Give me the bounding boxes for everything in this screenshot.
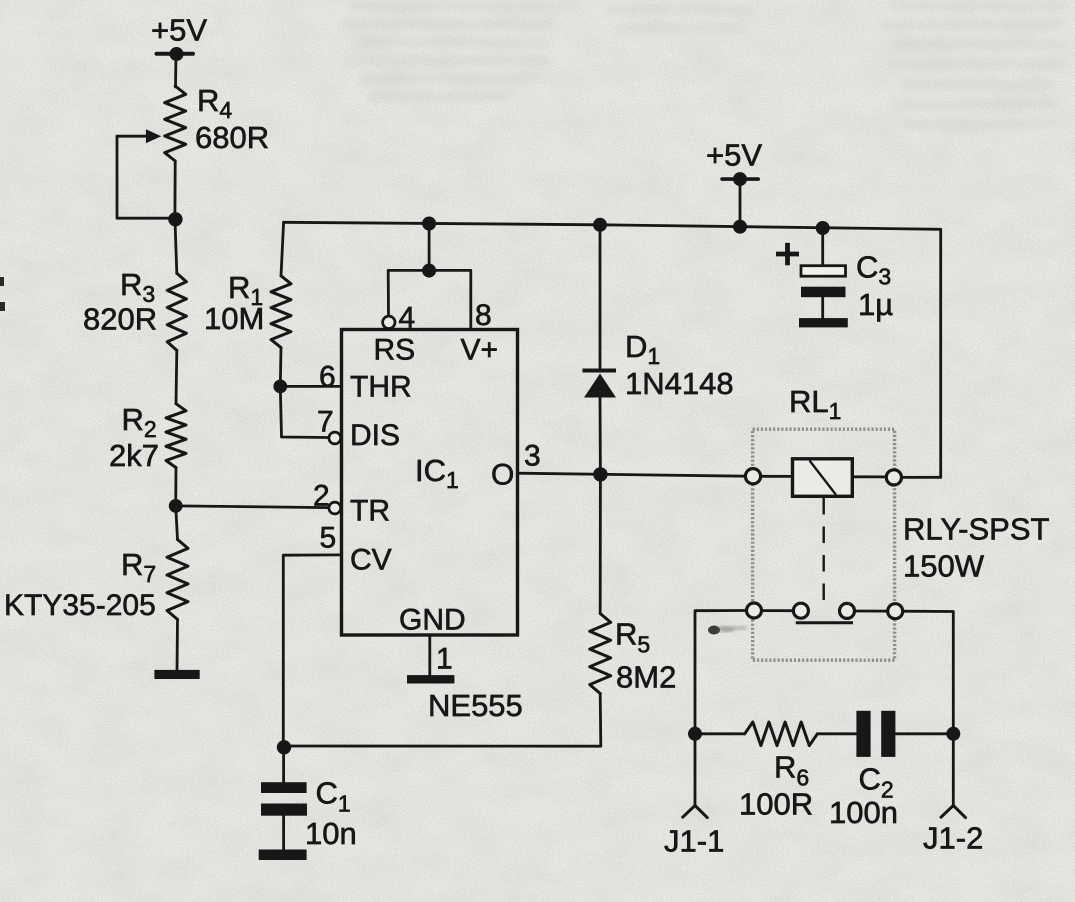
switch terminal 3 bbox=[840, 603, 855, 618]
resistor R2 zigzag bbox=[166, 404, 186, 468]
svg-text:10n: 10n bbox=[305, 816, 357, 851]
switch terminal 1 bbox=[747, 603, 762, 618]
wire switch right circle to J1-2 vertical bbox=[903, 611, 954, 734]
svg-text:2k7: 2k7 bbox=[109, 438, 159, 473]
relay actuator dashed line bbox=[823, 498, 825, 607]
wire C1 node to C1 top plate bbox=[282, 747, 285, 782]
svg-text:2: 2 bbox=[313, 480, 330, 513]
wire J1-2 node down to connector bbox=[952, 734, 955, 806]
svg-text:GND: GND bbox=[399, 604, 466, 637]
resistor R4 (trimmer) zigzag bbox=[165, 86, 186, 161]
top rail bbox=[284, 222, 941, 229]
svg-text:TR: TR bbox=[350, 495, 390, 528]
resistor R5 zigzag bbox=[590, 614, 611, 694]
svg-text:1µ: 1µ bbox=[858, 287, 893, 322]
wire R2 to TR node bbox=[174, 468, 177, 506]
node THR junction bbox=[273, 380, 287, 394]
pin 7 circle bbox=[329, 432, 341, 444]
capacitor C1 bottom plate bbox=[261, 804, 307, 816]
supply +5V right: bar bbox=[722, 177, 758, 181]
svg-text:KTY35-205: KTY35-205 bbox=[4, 589, 156, 622]
IC pin numbers bbox=[313, 299, 541, 676]
wire C3 bottom plate to ground bbox=[821, 297, 824, 318]
svg-text:680R: 680R bbox=[195, 120, 269, 155]
svg-text:CV: CV bbox=[350, 544, 392, 577]
relay coil right terminal bbox=[886, 470, 901, 485]
+5V right wire down to rail bbox=[739, 179, 742, 227]
connector J1-2 chevron bbox=[941, 806, 966, 818]
relay coil diagonal bbox=[810, 461, 837, 495]
node J1-1 bbox=[688, 727, 702, 741]
svg-text:J1-2: J1-2 bbox=[923, 821, 983, 856]
relay coil box bbox=[793, 459, 853, 497]
wire rail to sub-rail (pins 4,8) bbox=[428, 224, 431, 271]
ground bar under R7 bbox=[154, 670, 199, 679]
scan artifact left edge tick bbox=[0, 277, 4, 286]
svg-text:+5V: +5V bbox=[706, 138, 762, 173]
capacitor C3 plus sign bbox=[776, 243, 799, 265]
svg-text:THR: THR bbox=[350, 371, 412, 404]
resistor R3 zigzag bbox=[167, 273, 186, 350]
wire R5 bottom to bottom run bbox=[284, 694, 601, 747]
wire relay right circle to right vertical bbox=[901, 476, 940, 479]
IC pin names bbox=[350, 334, 514, 637]
wire output node down to R5 bbox=[599, 474, 602, 613]
svg-text:RS: RS bbox=[374, 334, 416, 367]
switch row: wire left circle to J1-1 vertical bbox=[695, 611, 747, 734]
wire R1 to THR node bbox=[279, 348, 283, 387]
pin 2 circle bbox=[329, 502, 341, 514]
wire R7 to ground bbox=[176, 619, 179, 670]
node output bbox=[593, 467, 607, 481]
wire C1 bottom plate to ground bbox=[282, 816, 285, 850]
node C1 CV bbox=[277, 740, 291, 754]
wire relay coil left circle stub bbox=[760, 475, 792, 478]
wire between switch circles 3-4 bbox=[854, 610, 888, 613]
wire R3 to R2 bbox=[175, 350, 179, 403]
wire rail to C3 bbox=[821, 228, 824, 266]
svg-text:5: 5 bbox=[320, 522, 337, 555]
svg-text:1N4148: 1N4148 bbox=[625, 366, 734, 401]
wire R6 to C2 bbox=[817, 732, 856, 735]
svg-text:RLY-SPST: RLY-SPST bbox=[903, 512, 1050, 547]
node rail-subrail bbox=[422, 217, 436, 231]
capacitor C3 bottom plate bbox=[801, 287, 846, 298]
svg-text:10M: 10M bbox=[204, 301, 264, 336]
wire THR node down to DIS pin7 bbox=[280, 386, 328, 437]
resistor R7 zigzag (KTY sensor) bbox=[167, 540, 188, 620]
diode D1 triangle bbox=[584, 374, 616, 398]
svg-text:7: 7 bbox=[317, 406, 334, 439]
wire between switch circles 1-2 bbox=[761, 609, 793, 612]
wire THR node to pin6 bbox=[280, 385, 341, 388]
svg-text:4: 4 bbox=[399, 302, 416, 335]
wire rail to D1 bbox=[599, 225, 602, 371]
open pin circles bbox=[329, 316, 903, 619]
svg-text:100R: 100R bbox=[739, 787, 813, 822]
relay contact bar bbox=[796, 621, 853, 624]
supply +5V left: bar bbox=[157, 52, 194, 56]
ground bar under IC pin1 bbox=[407, 675, 454, 683]
wire C1 node up to CV pin5 bbox=[283, 555, 341, 746]
node R4 wiper junction bbox=[168, 212, 182, 226]
capacitor C2 left plate bbox=[856, 711, 870, 757]
wire relay coil right circle stub bbox=[852, 475, 885, 478]
wire J1-1 node down to connector bbox=[694, 734, 697, 806]
resistor R6 zigzag bbox=[745, 722, 818, 746]
pin 4 circle bbox=[383, 316, 395, 328]
IC1 NE555 box bbox=[342, 330, 518, 636]
right vertical wire rail to relay bbox=[939, 229, 942, 477]
wire TR node to R7 bbox=[176, 506, 178, 540]
relay coil left terminal bbox=[745, 469, 760, 484]
IC pin1 wire to ground bbox=[428, 637, 431, 675]
svg-text:1: 1 bbox=[436, 643, 453, 676]
relay RL1 dashed enclosure bbox=[753, 429, 895, 660]
node rail C3 bbox=[816, 221, 830, 235]
wire J1-1 node to R6 bbox=[695, 732, 745, 735]
scan artifact smudge bbox=[708, 626, 748, 635]
capacitor C1 top plate bbox=[261, 782, 307, 793]
wire junction to R3 bbox=[175, 218, 177, 273]
svg-text:8M2: 8M2 bbox=[616, 660, 676, 695]
switch terminal 4 bbox=[888, 604, 903, 619]
node +5V left bbox=[170, 47, 184, 61]
svg-text:NE555: NE555 bbox=[428, 688, 523, 723]
wiper bracket wire bbox=[117, 136, 175, 218]
wire C2 to J1-2 node bbox=[895, 732, 953, 735]
wire D1 to output node bbox=[599, 398, 602, 475]
svg-text:3: 3 bbox=[524, 440, 541, 473]
ground bar under C1 bbox=[259, 850, 307, 861]
node subrail center bbox=[422, 264, 436, 278]
sub-rail pins 4 and 8 bbox=[388, 270, 471, 329]
wire +5V left down to R4 bbox=[174, 54, 177, 87]
node +5V right top bbox=[733, 172, 747, 186]
switch terminal 2 bbox=[793, 603, 808, 618]
output wire pin3 to relay bbox=[518, 473, 746, 476]
wire rail left corner down to R1 bbox=[281, 222, 284, 275]
svg-text:150W: 150W bbox=[903, 549, 985, 584]
svg-text:DIS: DIS bbox=[350, 419, 400, 452]
ground bar under C3 bbox=[799, 318, 848, 327]
svg-text:820R: 820R bbox=[83, 302, 157, 337]
capacitor C2 right plate bbox=[881, 711, 895, 757]
svg-text:V+: V+ bbox=[461, 334, 499, 367]
svg-text:6: 6 bbox=[319, 361, 336, 394]
svg-text:100n: 100n bbox=[829, 795, 898, 830]
capacitor C3 top plate (hollow) bbox=[801, 266, 846, 277]
diode D1 cathode bar bbox=[583, 369, 617, 373]
svg-text:+5V: +5V bbox=[151, 13, 207, 48]
svg-text:J1-1: J1-1 bbox=[664, 824, 724, 859]
node J1-2 bbox=[946, 727, 960, 741]
R4 wiper arrowhead bbox=[146, 129, 161, 143]
connector J1-1 chevron bbox=[683, 806, 708, 818]
node rail +5V bbox=[733, 220, 747, 234]
node rail-D1 bbox=[593, 218, 607, 232]
node TR junction bbox=[169, 499, 183, 513]
wire R4 bottom to junction bbox=[173, 161, 176, 218]
ghost show-through text bbox=[340, 2, 1065, 129]
svg-text:8: 8 bbox=[475, 299, 492, 332]
svg-text:O: O bbox=[491, 459, 514, 492]
resistor R1 zigzag bbox=[271, 276, 291, 348]
wire TR node to pin2 bbox=[176, 506, 329, 508]
wiper arrow of R4 bbox=[117, 135, 147, 138]
